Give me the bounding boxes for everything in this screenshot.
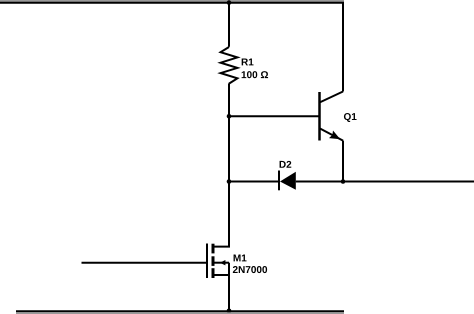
node emitter junction — [341, 179, 346, 184]
label 100 Ohm — [242, 71, 268, 78]
wire base horizontal — [229, 115, 320, 117]
wire gate horizontal — [82, 262, 207, 264]
wire mid vertical — [228, 116, 230, 181]
top rail gray band (net V+) — [0, 0, 344, 2]
source line — [214, 274, 229, 276]
wire resistor bottom stub — [228, 83, 230, 116]
wire emitter vertical — [342, 141, 344, 182]
gate plate — [206, 244, 208, 279]
wire drain vertical with bend — [213, 182, 229, 247]
wire bottom rail horizontal (ground net) — [16, 310, 344, 312]
transistor Q1 (NPN) — [320, 92, 344, 141]
node base junction — [227, 114, 232, 119]
label M1 — [234, 255, 247, 262]
wire diode left segment — [229, 181, 279, 183]
node diode-left junction — [227, 179, 232, 184]
channel segment body — [212, 256, 215, 266]
resistor R1 zigzag — [221, 47, 238, 84]
wire collector vertical — [342, 3, 344, 92]
label 2N7000 — [233, 266, 267, 273]
diode D2 (cathode bar left, filled triangle pointing left) — [279, 171, 296, 191]
body arrow — [220, 260, 226, 265]
node top junction — [227, 0, 232, 5]
wire resistor top stub — [228, 3, 230, 47]
mosfet M1 (NMOS) — [207, 244, 229, 279]
body line — [214, 262, 229, 264]
label R1 — [242, 59, 254, 66]
label D2 — [280, 161, 292, 168]
wire diode right to edge — [296, 181, 474, 183]
channel segment drain — [212, 244, 215, 254]
wire source vertical — [228, 263, 230, 312]
bottom rail gray band — [16, 312, 344, 314]
channel segment source — [212, 268, 215, 278]
label Q1 — [344, 113, 357, 122]
wire top horizontal — [0, 2, 344, 4]
node bottom junction — [227, 309, 232, 314]
